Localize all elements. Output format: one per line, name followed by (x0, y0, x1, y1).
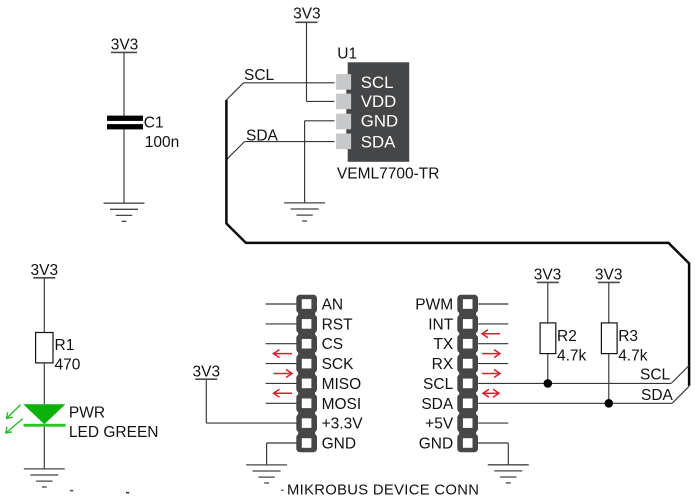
svg-text:PWM: PWM (415, 297, 453, 314)
svg-text:LED GREEN: LED GREEN (69, 424, 159, 441)
svg-text:SDA: SDA (246, 127, 279, 144)
svg-text:GND: GND (361, 112, 398, 131)
svg-text:RST: RST (322, 316, 354, 333)
svg-text:AN: AN (322, 297, 344, 314)
svg-text:R3: R3 (618, 328, 638, 345)
svg-text:SCL: SCL (640, 366, 671, 383)
svg-text:+3.3V: +3.3V (322, 416, 364, 433)
svg-text:SCL: SCL (244, 67, 275, 84)
svg-text:INT: INT (428, 316, 454, 333)
svg-text:R2: R2 (557, 328, 577, 345)
svg-text:U1: U1 (337, 45, 357, 62)
svg-text:RX: RX (432, 356, 454, 373)
svg-text:3V3: 3V3 (595, 267, 623, 284)
svg-text:3V3: 3V3 (293, 6, 321, 23)
svg-text:CS: CS (322, 336, 344, 353)
svg-text:MOSI: MOSI (322, 396, 362, 413)
svg-text:TX: TX (433, 336, 453, 353)
svg-text:SDA: SDA (641, 387, 674, 404)
svg-text:VDD: VDD (361, 92, 396, 111)
svg-text:3V3: 3V3 (31, 262, 59, 279)
svg-text:SCL: SCL (423, 376, 454, 393)
svg-text:SCL: SCL (361, 73, 394, 92)
svg-text:MISO: MISO (322, 376, 362, 393)
svg-text:3V3: 3V3 (111, 36, 139, 53)
svg-text:GND: GND (322, 436, 356, 453)
svg-text:4.7k: 4.7k (557, 347, 587, 364)
svg-text:MIKROBUS DEVICE CONN: MIKROBUS DEVICE CONN (287, 483, 479, 499)
svg-text:4.7k: 4.7k (618, 347, 648, 364)
svg-text:PWR: PWR (69, 404, 105, 421)
svg-text:3V3: 3V3 (534, 267, 562, 284)
svg-text:SCK: SCK (322, 356, 355, 373)
svg-text:VEML7700-TR: VEML7700-TR (337, 165, 440, 182)
svg-text:SDA: SDA (421, 396, 454, 413)
svg-text:3V3: 3V3 (193, 363, 221, 380)
svg-text:100n: 100n (145, 134, 179, 151)
svg-text:SDA: SDA (361, 132, 396, 151)
svg-text:+5V: +5V (425, 416, 454, 433)
svg-text:C1: C1 (144, 114, 164, 131)
svg-text:470: 470 (55, 356, 81, 373)
svg-text:GND: GND (419, 436, 453, 453)
svg-text:R1: R1 (55, 337, 75, 354)
